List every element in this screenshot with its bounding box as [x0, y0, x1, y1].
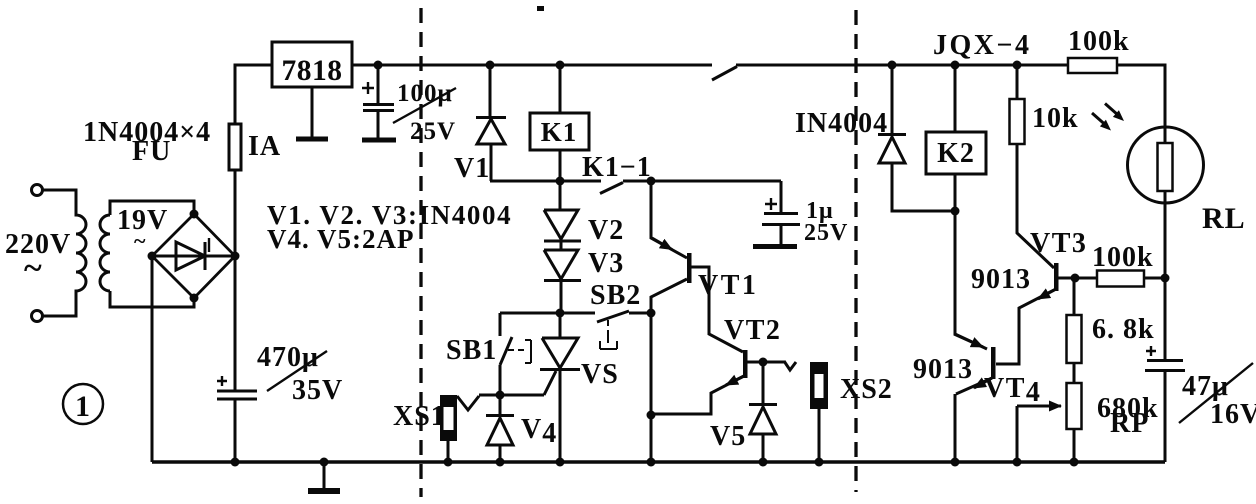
- svg-text:V3: V3: [588, 248, 624, 279]
- svg-text:V4. V5:2AP: V4. V5:2AP: [267, 224, 415, 254]
- svg-text:IA: IA: [248, 131, 281, 162]
- svg-text:V5: V5: [710, 421, 746, 452]
- svg-text:100k: 100k: [1092, 242, 1154, 273]
- svg-text:V1: V1: [454, 153, 490, 184]
- svg-text:VT2: VT2: [724, 315, 781, 346]
- svg-text:1: 1: [75, 390, 91, 423]
- svg-text:25V: 25V: [804, 220, 848, 246]
- svg-text:9013: 9013: [971, 264, 1031, 295]
- svg-text:XS2: XS2: [840, 374, 893, 405]
- svg-text:VS: VS: [581, 359, 619, 390]
- svg-text:RP: RP: [1110, 408, 1149, 439]
- svg-text:IN4004: IN4004: [795, 108, 888, 139]
- svg-text:K2: K2: [937, 138, 975, 169]
- svg-text:6. 8k: 6. 8k: [1092, 314, 1155, 345]
- svg-text:100k: 100k: [1068, 26, 1130, 57]
- svg-text:47μ: 47μ: [1182, 371, 1229, 402]
- svg-text:SB2: SB2: [590, 280, 641, 311]
- svg-text:XS1: XS1: [393, 401, 446, 432]
- svg-text:25V: 25V: [410, 118, 456, 145]
- svg-text:VT3: VT3: [1030, 228, 1087, 259]
- svg-text:K1−1: K1−1: [582, 152, 652, 183]
- svg-text:9013: 9013: [913, 354, 973, 385]
- svg-text:35V: 35V: [292, 375, 343, 406]
- svg-text:470μ: 470μ: [257, 342, 319, 373]
- svg-text:16V: 16V: [1210, 399, 1256, 430]
- svg-text:VT4: VT4: [984, 373, 1041, 408]
- svg-text:7818: 7818: [282, 55, 343, 87]
- svg-text:K1: K1: [541, 117, 578, 147]
- svg-text:~: ~: [134, 228, 146, 253]
- svg-text:100μ: 100μ: [397, 80, 453, 107]
- svg-text:~: ~: [24, 250, 43, 287]
- svg-text:VT1: VT1: [698, 270, 758, 301]
- svg-text:SB1: SB1: [446, 335, 497, 366]
- svg-text:10k: 10k: [1032, 103, 1079, 134]
- svg-text:JQX−4: JQX−4: [933, 30, 1031, 61]
- svg-text:V4: V4: [521, 414, 557, 449]
- svg-text:V2: V2: [588, 215, 624, 246]
- svg-text:RL: RL: [1202, 202, 1246, 235]
- svg-text:FU: FU: [132, 136, 171, 167]
